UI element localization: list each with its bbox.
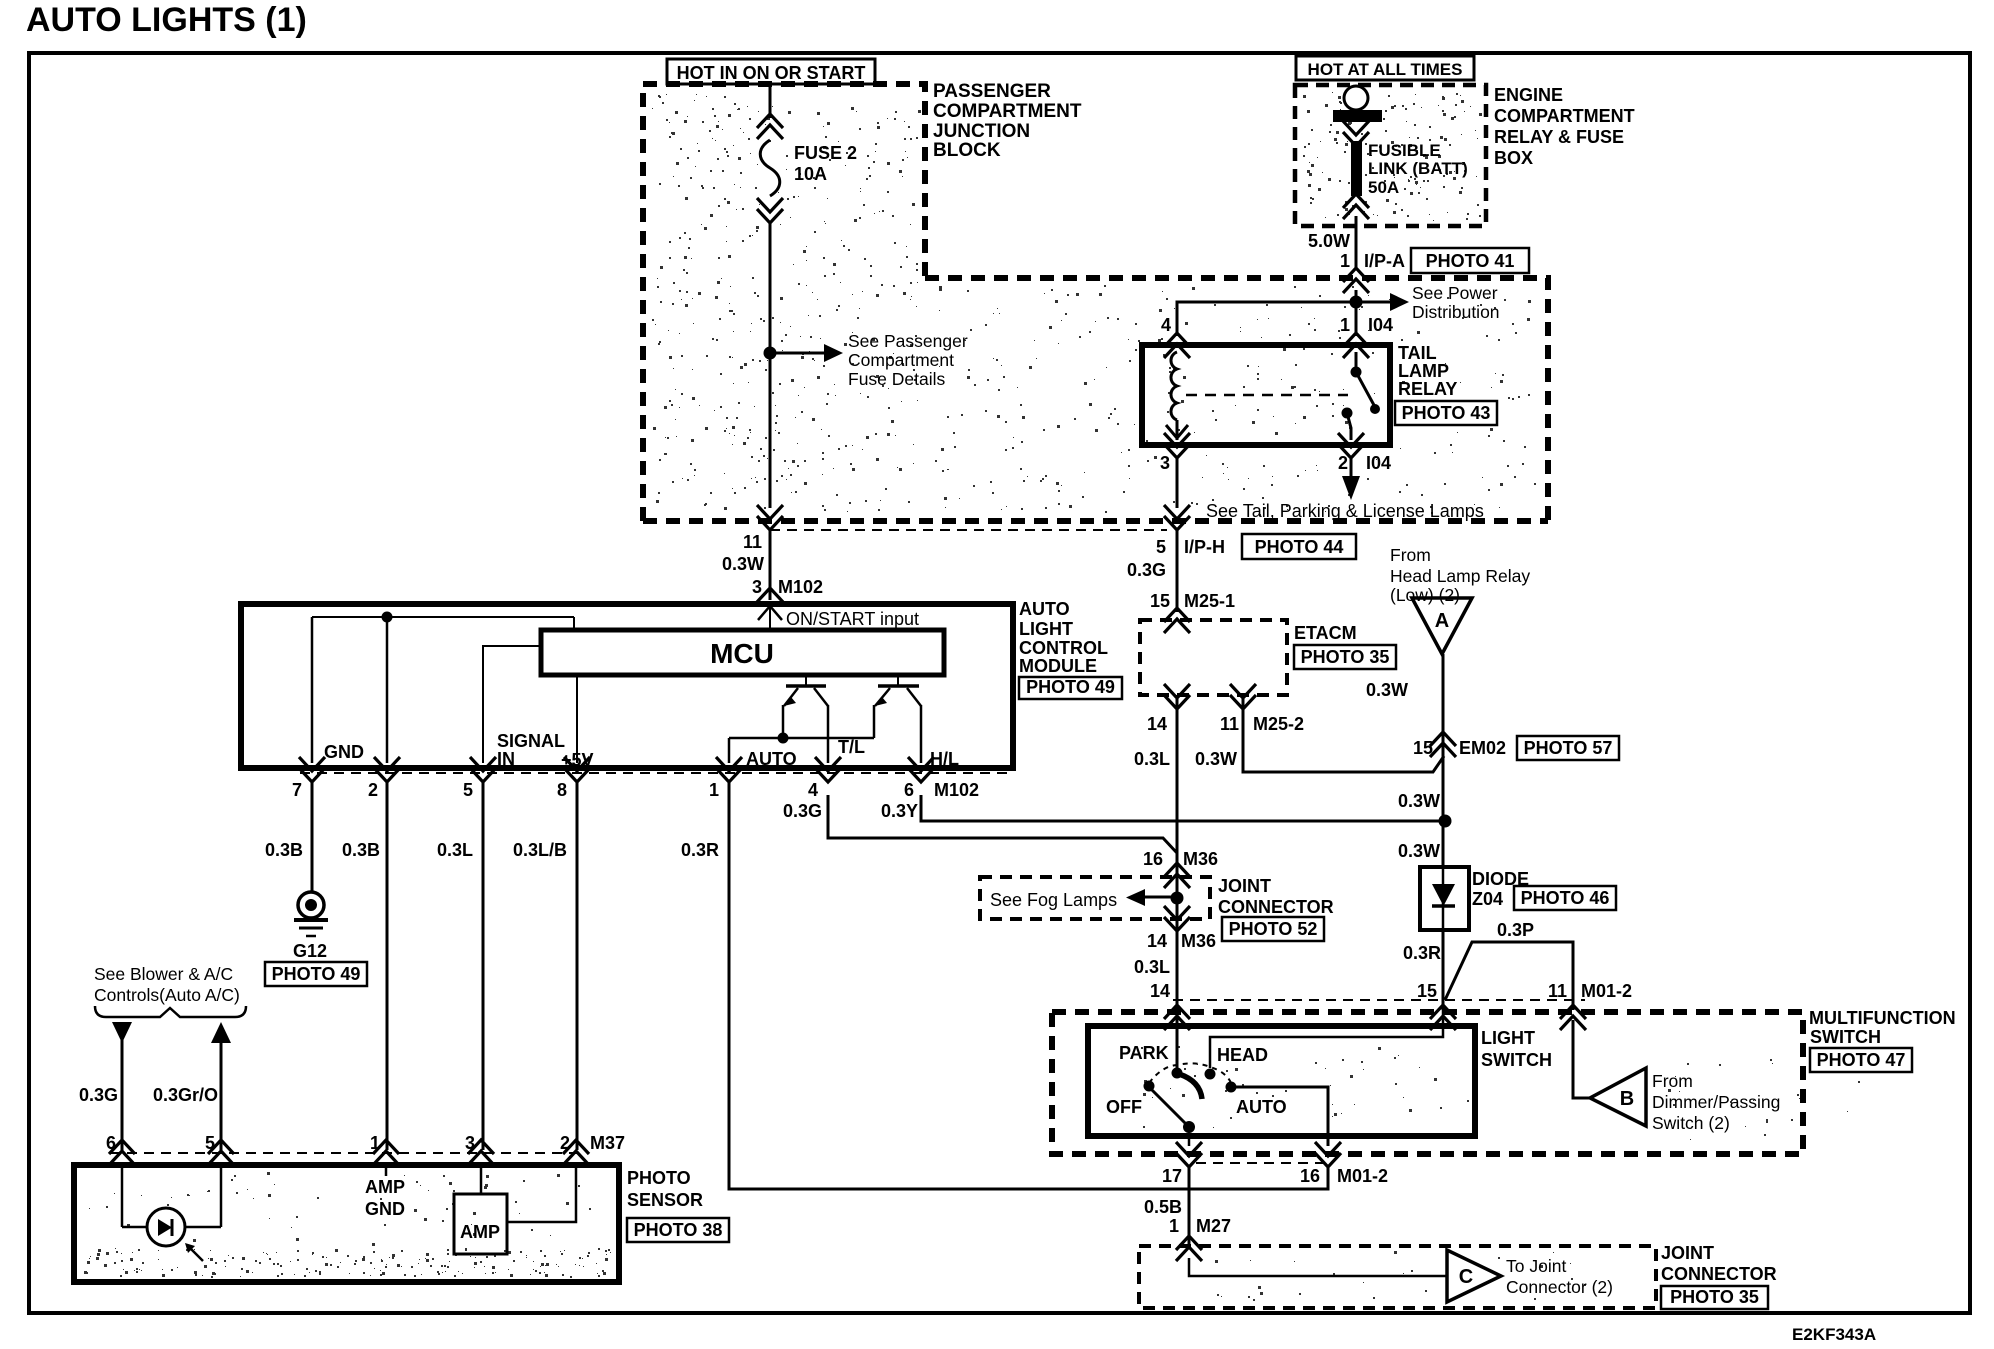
svg-text:H/L: H/L [930,749,959,769]
svg-text:PASSENGER: PASSENGER [933,81,1051,102]
transistor Q1 [805,675,807,686]
svg-text:0.3W: 0.3W [1366,680,1408,700]
svg-text:SWITCH: SWITCH [1810,1027,1881,1047]
connector at fuse 2 bottom [757,198,783,223]
svg-text:See Power: See Power [1412,283,1498,303]
svg-text:RELAY: RELAY [1398,379,1457,399]
svg-text:SWITCH: SWITCH [1481,1050,1552,1070]
connector M102 pin at x=921 [908,757,934,782]
connector light switch pin 16 [1315,1142,1341,1167]
svg-text:0.3Y: 0.3Y [881,801,918,821]
svg-text:8: 8 [557,780,567,800]
svg-text:0.3L: 0.3L [1134,957,1170,977]
svg-text:M36: M36 [1181,931,1216,951]
svg-text:AMP: AMP [365,1177,405,1197]
connector M37 dashed line [110,1152,582,1154]
svg-text:16: 16 [1300,1166,1320,1186]
svg-text:6: 6 [904,780,914,800]
connector M01-2 lower dashed line [1196,1162,1323,1164]
switch contact PARK [1172,1068,1183,1079]
svg-text:RELAY & FUSE: RELAY & FUSE [1494,127,1624,147]
svg-text:0.3B: 0.3B [342,840,380,860]
wire module pin 5 to M37 pin 3 [482,781,485,1150]
svg-text:0.3G: 0.3G [79,1085,118,1105]
svg-text:16: 16 [1143,849,1163,869]
connector M25-2 pin 11 [1230,684,1256,709]
wire relay pin 3 to I/P-H [1176,457,1179,508]
svg-text:LINK (BATT): LINK (BATT) [1368,159,1468,178]
branch arrow to power distribution note [1362,301,1390,304]
svg-text:PHOTO 49: PHOTO 49 [1026,677,1115,697]
internal AUTO wire [728,738,731,763]
svg-text:2: 2 [1338,453,1348,473]
svg-text:14: 14 [1147,931,1167,951]
svg-text:0.3P: 0.3P [1497,920,1534,940]
svg-text:0.3L/B: 0.3L/B [513,840,567,860]
svg-text:Compartment: Compartment [848,350,954,370]
svg-text:FUSIBLE: FUSIBLE [1368,141,1441,160]
wire fusible link to I/P-A [1355,216,1358,270]
svg-text:10A: 10A [794,164,827,184]
svg-text:CONTROL: CONTROL [1019,638,1108,658]
connector block exit (pin 11) [757,505,783,530]
connector light switch pin 15 [1430,1005,1456,1030]
svg-text:6: 6 [106,1133,116,1153]
svg-text:0.3G: 0.3G [1127,560,1166,580]
svg-text:M37: M37 [590,1133,625,1153]
brace [95,1006,246,1017]
svg-text:0.3W: 0.3W [1398,791,1440,811]
junction node I/P-A [1350,296,1363,309]
svg-text:HOT AT ALL TIMES: HOT AT ALL TIMES [1308,60,1463,79]
svg-text:See Blower & A/C: See Blower & A/C [94,964,233,984]
svg-text:Fuse Details: Fuse Details [848,369,946,389]
junction node GND bus [382,612,393,623]
relay coil [1171,352,1177,420]
wire to relay pin 4 [1177,302,1356,336]
svg-text:0.3R: 0.3R [1403,943,1441,963]
wire relay pin 2 to tail lamps [1350,457,1353,476]
wire AUTO contact to pin 16 [1236,1087,1328,1146]
svg-text:See Tail, Parking & License La: See Tail, Parking & License Lamps [1206,501,1484,521]
svg-text:1: 1 [1169,1216,1179,1236]
svg-text:COMPARTMENT: COMPARTMENT [933,101,1082,122]
connector M102 pin at x=828 [815,757,841,782]
wire output contact to pin 17 [1188,1127,1191,1146]
off-page triangle B [1590,1068,1646,1126]
svg-text:Z04: Z04 [1472,889,1503,909]
svg-text:JOINT: JOINT [1218,876,1271,896]
connector fusible link top [1343,121,1369,146]
label HOT IN ON OR START [667,59,875,84]
relay NO contact to pin 2 [1342,408,1353,419]
connector M37 pin at x=576 [563,1140,589,1165]
wire I/P-H to M25-1 [1176,529,1179,612]
branch arrow to fuse details note [776,352,824,355]
svg-text:PHOTO 38: PHOTO 38 [634,1220,723,1240]
wire light switch pin 16 to module AUTO pin 1 [729,781,1328,1189]
switch arm OFF to output [1151,1089,1187,1125]
relay common contact [1355,352,1358,372]
svg-text:M27: M27 [1196,1216,1231,1236]
connector M102 pin at x=387 [374,757,400,782]
svg-text:0.3G: 0.3G [783,801,822,821]
connector M36 pin 14 [1164,906,1190,931]
svg-text:Controls(Auto A/C): Controls(Auto A/C) [94,985,240,1005]
connector M25-2 pin 14 [1164,684,1190,709]
arrow to blower (down) [112,1022,132,1043]
relay linkage dashed line [1186,394,1348,397]
svg-text:17: 17 [1162,1166,1182,1186]
junction node H/L join [1439,815,1452,828]
wire junction to block exit [769,353,772,508]
multifunction switch dashed box [1052,1012,1803,1154]
svg-text:5: 5 [463,780,473,800]
svg-text:PHOTO: PHOTO [627,1168,691,1188]
svg-text:I04: I04 [1366,453,1391,473]
svg-text:Head Lamp Relay: Head Lamp Relay [1390,566,1530,586]
svg-text:AUTO: AUTO [1019,599,1070,619]
svg-text:TAIL: TAIL [1398,343,1437,363]
wire fuse 2 to junction [769,222,772,352]
svg-text:1: 1 [370,1133,380,1153]
svg-text:3: 3 [465,1133,475,1153]
svg-text:E2KF343A: E2KF343A [1792,1325,1876,1344]
junction block / relay box bottom dashed edge [643,518,1548,524]
svg-text:HOT IN ON OR START: HOT IN ON OR START [677,63,866,83]
svg-text:From: From [1390,545,1431,565]
svg-text:JOINT: JOINT [1661,1243,1714,1263]
svg-text:14: 14 [1147,714,1167,734]
svg-text:LIGHT: LIGHT [1019,619,1073,639]
svg-text:PHOTO 57: PHOTO 57 [1524,738,1613,758]
svg-text:5: 5 [1156,537,1166,557]
connector M102 pin at x=483 [470,757,496,782]
auto light control module box [241,604,1013,768]
engine harness dashed box (tail lamp relay area) [925,278,1548,521]
ON/START input arrow [769,608,771,630]
svg-text:5.0W: 5.0W [1308,231,1350,251]
junction node on fuse output [764,347,777,360]
internal SIGNAL IN wire [483,646,541,763]
battery bus bar [1333,110,1382,122]
branch 0.3P to M01-2 pin 11 [1445,942,1573,1010]
connector light switch pin 17 [1176,1142,1202,1167]
svg-text:SENSOR: SENSOR [627,1190,703,1210]
svg-text:PHOTO 43: PHOTO 43 [1402,403,1491,423]
svg-text:See Fog Lamps: See Fog Lamps [990,890,1117,910]
internal +5V wire [576,675,578,763]
photo sensor box [74,1165,619,1282]
svg-text:PHOTO 52: PHOTO 52 [1229,919,1318,939]
label HOT AT ALL TIMES [1296,56,1474,80]
svg-text:CONNECTOR: CONNECTOR [1218,897,1334,917]
svg-text:EM02: EM02 [1459,738,1506,758]
svg-text:11: 11 [1548,981,1567,1001]
wire pin 15 to HEAD contact [1210,1010,1443,1068]
connector relay pin 1 [1343,333,1369,358]
svg-text:7: 7 [292,780,302,800]
svg-text:JUNCTION: JUNCTION [933,121,1030,142]
off-page triangle A [1412,598,1472,654]
wire pin 11 to triangle B [1573,1020,1590,1098]
svg-text:HEAD: HEAD [1217,1045,1268,1065]
fusible link (BATT) 50A element [1351,141,1362,196]
svg-text:Dimmer/Passing: Dimmer/Passing [1652,1092,1780,1112]
wire H/L 0.3Y from module pin 6 [921,795,1445,821]
svg-text:C: C [1459,1266,1473,1288]
svg-text:3: 3 [1160,453,1170,473]
connector M37 pin at x=386 [373,1140,399,1165]
svg-text:0.5B: 0.5B [1144,1197,1182,1217]
thin connector link line pin11 to I/P-H [770,529,1167,531]
connector relay pin 4 [1164,333,1190,358]
svg-text:0.3L: 0.3L [1134,749,1170,769]
wire module pin 2 to M37 pin 1 [386,781,389,1150]
svg-text:COMPARTMENT: COMPARTMENT [1494,106,1635,126]
svg-text:AUTO: AUTO [746,749,797,769]
svg-text:See Passenger: See Passenger [848,331,968,351]
fuse F2 symbol [760,140,780,196]
svg-text:15: 15 [1417,981,1437,1001]
light arrow into photodiode [189,1247,203,1261]
ground G12 symbol [298,892,324,918]
svg-text:1: 1 [1340,251,1350,271]
svg-text:M01-2: M01-2 [1581,981,1632,1001]
connector multifunction pin 11 [1560,1005,1586,1030]
transistor Q2 [897,675,899,686]
svg-text:BLOCK: BLOCK [933,140,1001,161]
svg-text:1: 1 [709,780,719,800]
svg-text:15: 15 [1150,591,1170,611]
wire M37 pin 1 (AMP GND) [385,1164,388,1176]
svg-text:I/P-H: I/P-H [1184,537,1225,557]
wire M25-2 pin 11 to EM02 wire [1243,695,1444,772]
connector M102 pin at x=577 [564,757,590,782]
connector M37 pin at x=122 [109,1140,135,1165]
relay switch arm [1356,372,1375,407]
relay coil bottom arrow [1166,425,1188,438]
fog lamp joint connector dashed box [980,877,1210,919]
connector M102 pin at x=729 [716,757,742,782]
wire 0.3G to sensor pin 6 [121,1040,124,1150]
svg-text:OFF: OFF [1106,1097,1142,1117]
svg-text:Distribution: Distribution [1412,302,1500,322]
svg-text:SIGNAL: SIGNAL [497,731,565,751]
svg-text:M102: M102 [778,577,823,597]
connector relay pin 2 [1338,433,1364,458]
branch arrow to fog lamps [1126,889,1145,906]
ETACM dashed box [1140,620,1287,695]
svg-text:4: 4 [808,780,818,800]
MCU U1 [541,630,944,675]
svg-text:G12: G12 [293,941,327,961]
connector M01-2 dashed line [1173,999,1585,1001]
wire 0.3Gr/O to sensor pin 5 [220,1040,223,1150]
svg-text:PHOTO 47: PHOTO 47 [1817,1050,1906,1070]
wire I/P-A to relay pin 1 [1355,290,1358,336]
svg-text:I/P-A: I/P-A [1364,251,1405,271]
svg-text:14: 14 [1150,981,1170,1001]
diode Z04 box [1420,867,1469,930]
svg-text:I04: I04 [1368,315,1393,335]
svg-text:MCU: MCU [710,638,774,669]
svg-text:0.3W: 0.3W [722,554,764,574]
connector fusible link bottom [1343,194,1369,219]
svg-text:BOX: BOX [1494,148,1533,168]
svg-text:From: From [1652,1071,1693,1091]
svg-text:PARK: PARK [1119,1043,1169,1063]
svg-text:1: 1 [1340,315,1350,335]
junction node M36 [1171,892,1184,905]
svg-text:ENGINE: ENGINE [1494,85,1563,105]
svg-text:ETACM: ETACM [1294,623,1357,643]
sensor internal wires [121,1164,124,1227]
svg-text:Connector (2): Connector (2) [1506,1277,1613,1297]
connector M102 pin at x=312 [299,757,325,782]
switch contact HEAD [1205,1069,1216,1080]
connector at fuse 2 top [757,114,783,139]
joint connector dashed box [1139,1246,1656,1308]
svg-text:M36: M36 [1183,849,1218,869]
svg-text:AUTO LIGHTS (1): AUTO LIGHTS (1) [26,1,307,39]
svg-text:PHOTO 35: PHOTO 35 [1301,647,1390,667]
connector M37 pin at x=221 [208,1140,234,1165]
passenger compartment junction block (dashed) [643,84,925,521]
tail lamp relay box [1142,345,1390,445]
svg-text:2: 2 [560,1133,570,1153]
svg-text:GND: GND [324,742,364,762]
wire module pin 8 to M37 pin 2 [576,781,579,1150]
connector M37 pin at x=481 [468,1140,494,1165]
amplifier AMP box [454,1194,507,1254]
svg-text:MODULE: MODULE [1019,656,1097,676]
svg-text:To Joint: To Joint [1506,1256,1566,1276]
connector relay pin 3 [1164,433,1190,458]
svg-text:4: 4 [1161,315,1171,335]
connector I/P-H pin 5 [1164,505,1190,530]
svg-text:11: 11 [743,532,762,552]
svg-text:PHOTO 44: PHOTO 44 [1255,537,1344,557]
diode Z04 symbol [1442,867,1445,930]
svg-text:T/L: T/L [838,737,865,757]
svg-text:LAMP: LAMP [1398,361,1449,381]
svg-text:M102: M102 [934,780,979,800]
svg-text:CONNECTOR: CONNECTOR [1661,1264,1777,1284]
svg-text:M25-1: M25-1 [1184,591,1235,611]
svg-text:PHOTO 49: PHOTO 49 [272,964,361,984]
svg-text:3: 3 [752,577,762,597]
svg-text:LIGHT: LIGHT [1481,1028,1535,1048]
wire M37 pin 2 to AMP [507,1164,576,1222]
switch selector dashed arc [1149,1063,1232,1085]
svg-text:2: 2 [368,780,378,800]
wire to M102 pin 3 [769,529,772,600]
svg-text:0.3W: 0.3W [1195,749,1237,769]
svg-text:A: A [1435,610,1449,632]
wire M27 to triangle C [1189,1258,1447,1276]
svg-text:11: 11 [1220,714,1239,734]
svg-text:0.3B: 0.3B [265,840,303,860]
svg-text:AMP: AMP [460,1222,500,1242]
wire module pin 7 to ground [311,781,314,893]
wire M25-2 pin 14 down to M36 [1176,695,1179,1010]
connector light switch pin 14 [1164,1005,1190,1030]
light switch box [1088,1026,1475,1136]
svg-text:0.3R: 0.3R [681,840,719,860]
connector M102 dashed line [300,772,1013,774]
svg-text:(Low) (2): (Low) (2) [1390,585,1460,605]
svg-text:PHOTO 41: PHOTO 41 [1426,251,1515,271]
wire T/L 0.3G from module pin 4 [828,795,1177,853]
svg-text:PHOTO 35: PHOTO 35 [1670,1287,1759,1307]
switch contact OFF [1144,1081,1155,1092]
internal GND bus wire [312,616,574,618]
svg-text:Switch (2): Switch (2) [1652,1113,1730,1133]
svg-text:PHOTO 46: PHOTO 46 [1521,888,1610,908]
svg-text:0.3L: 0.3L [437,840,473,860]
svg-text:0.3Gr/O: 0.3Gr/O [153,1085,218,1105]
svg-text:GND: GND [365,1199,405,1219]
svg-text:MULTIFUNCTION: MULTIFUNCTION [1809,1008,1956,1028]
arrow from blower (up) [211,1022,231,1043]
svg-text:B: B [1620,1088,1634,1110]
wire pin 14 to PARK contact [1176,1010,1179,1070]
battery terminal circle [1344,86,1368,110]
svg-text:M01-2: M01-2 [1337,1166,1388,1186]
svg-text:IN: IN [497,749,515,769]
wire from HOT IN ON OR START to fuse 2 [769,84,772,118]
wire pin 17 to M27 [1188,1166,1191,1248]
wire triangle A to EM02 [1442,654,1445,1010]
svg-text:M25-2: M25-2 [1253,714,1304,734]
junction node emitter bus [778,733,789,744]
engine compartment relay & fuse box (dashed) [1295,85,1486,226]
svg-text:ON/START input: ON/START input [786,609,919,629]
switch contact AUTO [1226,1082,1237,1093]
switch output contact [1183,1121,1195,1133]
svg-text:5: 5 [205,1133,215,1153]
svg-text:AUTO: AUTO [1236,1097,1287,1117]
switch moving contact arc [1179,1074,1202,1099]
photodiode D1 [147,1208,185,1246]
off-page triangle C [1447,1250,1501,1302]
svg-text:50A: 50A [1368,178,1399,197]
svg-text:0.3W: 0.3W [1398,841,1440,861]
svg-text:FUSE 2: FUSE 2 [794,143,857,163]
wire M37 pin 3 to AMP [480,1164,483,1194]
